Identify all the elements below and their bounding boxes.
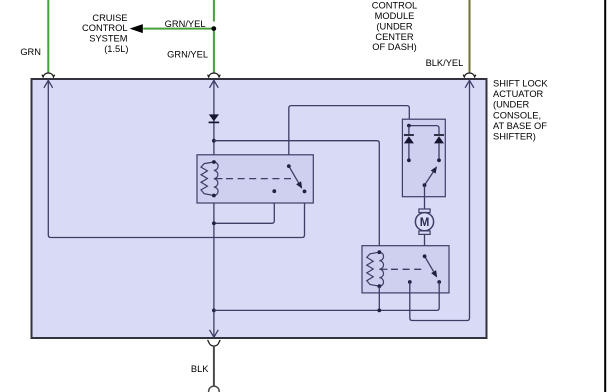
svg-text:CRUISE: CRUISE (92, 13, 127, 23)
node relay2 mid terminal (408, 280, 412, 284)
arrow to cruise control system (130, 24, 143, 33)
node diode pack pivot (423, 183, 427, 187)
relay K1 dashed link (216, 178, 223, 180)
svg-text:(UNDER: (UNDER (376, 22, 412, 32)
wire BLK/YEL vertical outside (468, 0, 471, 72)
entry arrow BLK/YEL inside box (465, 80, 474, 87)
node diode pack entry (407, 124, 411, 128)
wire left diode column (408, 126, 410, 161)
node relay2 pivot (423, 254, 427, 258)
svg-text:SYSTEM: SYSTEM (89, 33, 127, 43)
svg-text:GRN/YEL: GRN/YEL (165, 19, 206, 29)
wire relay2 NO terminal down-left to main junction (214, 282, 439, 310)
svg-text:OF DASH): OF DASH) (372, 42, 416, 52)
wire BLK below box (213, 345, 215, 386)
svg-text:GRN: GRN (20, 47, 41, 57)
switch arm in diode pack (425, 172, 434, 185)
wire GRN/YEL vertical to box (213, 31, 215, 73)
svg-text:GRN/YEL: GRN/YEL (167, 49, 208, 59)
svg-text:CONTROL: CONTROL (82, 23, 127, 33)
node diode D2 cathode (407, 158, 411, 162)
relay K2 coil zigzag (367, 252, 380, 286)
node junction GRN/YEL (211, 26, 216, 31)
wire from GRN entry down-left side, right and up to relay1 NO contact (48, 80, 304, 238)
exit arrow BLK inside box (210, 330, 219, 337)
wire right diode column (438, 143, 440, 160)
relay K1 coil bumps (214, 162, 218, 196)
shift lock actuator box (32, 79, 487, 338)
node diode D3 cathode (437, 158, 441, 162)
svg-text:M: M (420, 217, 430, 229)
svg-text:AT BASE OF: AT BASE OF (493, 121, 547, 131)
diode pack box (402, 119, 445, 197)
wire BLK/YEL down right side and to relay2 mid terminal (410, 80, 470, 321)
ground G1 circle (209, 386, 220, 392)
wire motor to relay2 pivot (424, 234, 426, 256)
connector arc GRN at box top (42, 73, 55, 77)
diode D1 on main line (209, 114, 219, 121)
relay K1 coil zigzag (201, 162, 214, 196)
node relay2 coil top (377, 250, 381, 254)
wire GRN vertical outside (47, 0, 49, 73)
node relay1 mid terminal (272, 189, 276, 193)
node relay2 NO terminal (437, 280, 441, 284)
connector arc BLK at box bottom (208, 340, 221, 346)
node main bottom junction (212, 309, 216, 313)
svg-text:SHIFTER): SHIFTER) (493, 132, 536, 142)
svg-text:BLK/YEL: BLK/YEL (426, 58, 464, 68)
relay K2 coil bumps (379, 252, 383, 286)
node at main line y141 (212, 139, 216, 143)
connector arc GRN/YEL at box top (208, 73, 221, 77)
wire pivot down to motor (424, 185, 426, 209)
node relay2 coil bottom (377, 284, 381, 288)
svg-text:(1.5L): (1.5L) (104, 44, 128, 54)
svg-text:CONTROL: CONTROL (372, 1, 417, 11)
relay K2 box (362, 246, 449, 293)
svg-text:CENTER: CENTER (375, 32, 414, 42)
diode D3 (right, up) (434, 134, 444, 136)
svg-text:SHIFT LOCK: SHIFT LOCK (493, 78, 548, 88)
entry arrow GRN/YEL inside box (210, 80, 219, 87)
svg-text:CONSOLE,: CONSOLE, (493, 110, 541, 120)
relay K2 dashed link (381, 268, 387, 270)
node coil2/bottom rail (377, 309, 381, 313)
wire relay1 pivot up and over to diode box (289, 106, 410, 167)
connector arc BLK/YEL at box top (463, 73, 476, 77)
svg-text:ACTUATOR: ACTUATOR (493, 89, 544, 99)
relay K1 switch arm (289, 166, 299, 183)
entry arrow GRN inside box (44, 80, 53, 87)
page frame right border (604, 0, 606, 392)
wire GRN/YEL main vertical (213, 80, 215, 337)
svg-text:MODULE: MODULE (375, 11, 415, 21)
wire relay2 coil bottom down to bottom rail (378, 286, 380, 310)
motor M1 (419, 209, 430, 213)
wire relay1 mid terminal down-left to main (214, 191, 274, 223)
relay K1 box (197, 155, 313, 203)
relay K2 switch arm (425, 256, 434, 271)
node relay1 coil top (212, 160, 216, 164)
node relay1 pivot (287, 164, 291, 168)
node main/relay1 mid (212, 221, 216, 225)
svg-text:BLK: BLK (191, 364, 209, 374)
diode D2 (left, up) (404, 134, 414, 136)
wire GRN/YEL horizontal to cruise (143, 28, 211, 30)
wire diode pack top rail (409, 126, 439, 134)
svg-text:(UNDER: (UNDER (493, 100, 529, 110)
wire GRN/YEL vertical outside top (213, 0, 215, 22)
wire from node to relay2 coil (214, 141, 379, 253)
node relay1 NO terminal (303, 190, 307, 194)
node relay1 coil bottom (212, 194, 216, 198)
